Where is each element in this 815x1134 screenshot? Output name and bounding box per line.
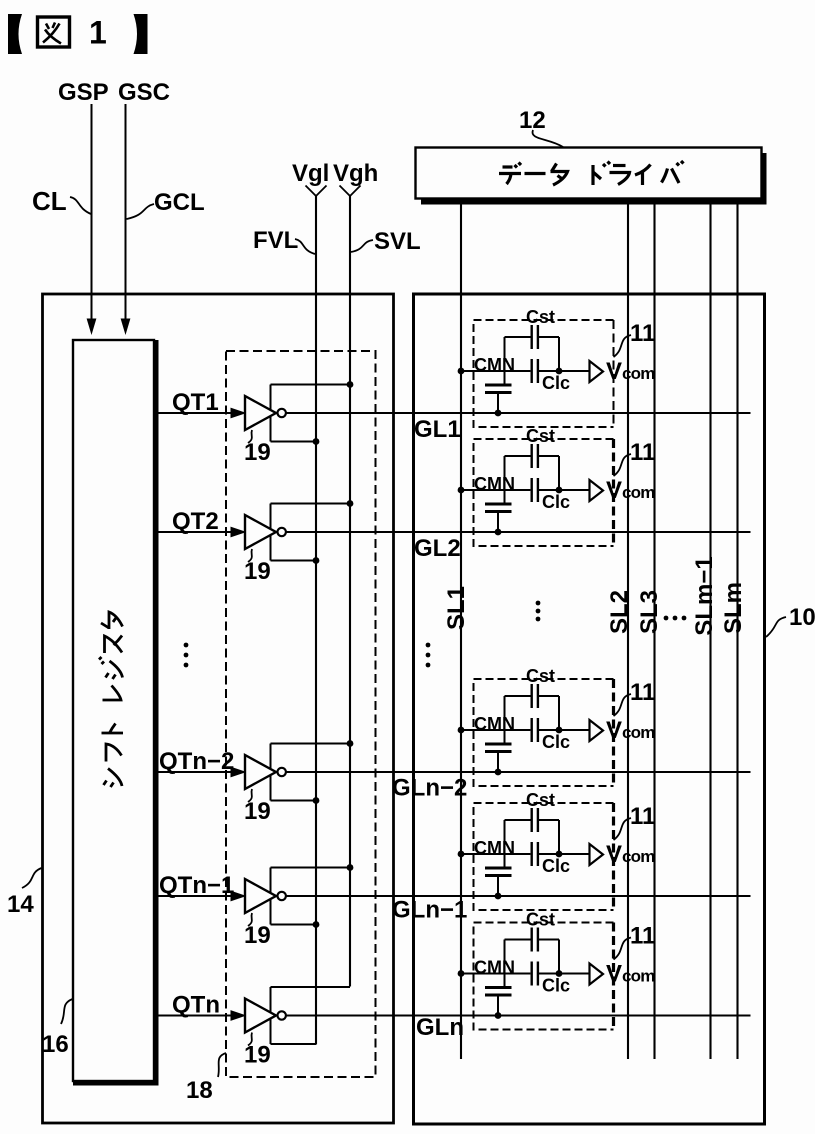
- cell dashed outline: [474, 923, 614, 1030]
- svg-text:1: 1: [89, 15, 107, 51]
- junction dot on GL2: [495, 529, 502, 536]
- wire node to Cst/CMN (left riser): [504, 940, 506, 988]
- shift register box 16: [73, 340, 159, 1086]
- capacitor Clc plates: [532, 478, 538, 502]
- capacitor Clc plates: [532, 718, 538, 742]
- leader from 18 to dashed box 18: [218, 1053, 226, 1077]
- inverter output bubble: [278, 768, 286, 776]
- svg-text:SL2: SL2: [606, 590, 633, 634]
- junction dot on Vgl: [313, 438, 320, 445]
- inverter power rail stubs: [271, 744, 351, 801]
- svg-text:Vcom: Vcom: [606, 717, 655, 744]
- svg-text:CMN: CMN: [474, 958, 515, 978]
- leader from FVL to Vgl rail: [295, 239, 315, 254]
- junction dot on Vgl: [313, 921, 320, 928]
- inverter 19 input arrowhead: [231, 527, 247, 538]
- wire Vgl vertical rail: [315, 196, 317, 1045]
- svg-text:GLn−2: GLn−2: [392, 775, 467, 802]
- leader from 19 to inverter: [248, 1033, 252, 1046]
- junction dot on SL1: [458, 368, 465, 375]
- capacitor Cst plates: [532, 808, 538, 832]
- MOS capacitor CMN plates: [485, 868, 512, 876]
- svg-text:Clc: Clc: [542, 373, 570, 393]
- left outer box 14 (gate driver): [43, 294, 394, 1123]
- junction dot on GLn−1: [495, 893, 502, 900]
- junction dot at Vcom node: [556, 851, 563, 858]
- svg-text:11: 11: [630, 439, 655, 466]
- svg-text:GLn: GLn: [416, 1014, 464, 1041]
- wire Cst to Vcom node (right riser): [558, 940, 560, 974]
- svg-text:Vcom: Vcom: [606, 477, 655, 504]
- pixel circuit 11 (row GL2): [458, 426, 656, 546]
- inverter power rail stubs: [271, 868, 351, 925]
- data driver box 12: [416, 148, 762, 199]
- inverter output bubble: [278, 409, 286, 417]
- leader from GCL to GSC wire: [127, 204, 155, 219]
- svg-text:CMN: CMN: [474, 355, 515, 375]
- svg-text:19: 19: [244, 922, 271, 949]
- wire pixel node: [461, 370, 590, 372]
- wire source line SLm: [736, 205, 738, 1060]
- wire QTn−2 from shift register: [159, 771, 233, 773]
- capacitor Clc plates: [532, 842, 538, 866]
- wire CMN gate to GLn: [497, 995, 499, 1016]
- junction dot on SL1: [458, 851, 465, 858]
- wire pixel node: [461, 853, 590, 855]
- wire QT2 from shift register: [159, 531, 233, 533]
- junction dot on SL1: [458, 727, 465, 734]
- svg-text:Cst: Cst: [526, 307, 555, 327]
- wire Cst to Vcom node (right riser): [558, 696, 560, 730]
- leader from 19 to inverter: [248, 549, 252, 562]
- leader from 11 to cell: [614, 818, 632, 840]
- inverter 19 input arrowhead: [231, 408, 247, 419]
- svg-text:19: 19: [244, 798, 271, 825]
- wire pixel node: [461, 489, 590, 491]
- capacitor Cst plates: [532, 444, 538, 468]
- leader from 11 to cell: [614, 694, 632, 716]
- svg-text:10: 10: [789, 604, 815, 631]
- Vcom terminal triangle: [590, 844, 604, 865]
- inverter power rail stubs: [271, 504, 351, 561]
- pixel circuit 11 (row GLn−2): [458, 666, 656, 786]
- cell dashed outline: [474, 803, 614, 910]
- inverter power rail stubs: [271, 987, 351, 1044]
- MOS capacitor CMN plates: [485, 385, 512, 393]
- wire gate line GLn−1: [286, 895, 751, 897]
- svg-text:GL2: GL2: [414, 535, 461, 562]
- inverter U3 triangle: [245, 755, 276, 789]
- junction dot on GLn−2: [495, 769, 502, 776]
- leader from 14 to left box: [22, 868, 42, 888]
- svg-text:Cst: Cst: [526, 666, 555, 686]
- capacitor Cst leads: [505, 336, 560, 338]
- svg-text:Vcom: Vcom: [606, 961, 655, 988]
- svg-text:11: 11: [630, 803, 655, 830]
- ellipsis between QT2 and QTn-2: [184, 643, 189, 668]
- inverter U2 triangle: [245, 515, 276, 549]
- svg-text:Cst: Cst: [526, 790, 555, 810]
- leader from 19 to inverter: [248, 430, 252, 443]
- Vcom terminal triangle: [590, 964, 604, 985]
- Vgl terminal fork: [306, 186, 327, 197]
- ellipsis between SL3 and SLm-1: [664, 616, 687, 621]
- level shifter dashed box 18: [226, 351, 376, 1077]
- junction dot on GL1: [495, 410, 502, 417]
- svg-text:GLn−1: GLn−1: [392, 897, 467, 924]
- wire CMN gate to GL2: [497, 512, 499, 533]
- svg-text:Vgl: Vgl: [292, 160, 329, 187]
- leader from CL to GSP wire: [70, 197, 91, 214]
- pixel circuit 11 (row GLn): [458, 910, 656, 1030]
- junction dot at Vcom node: [556, 487, 563, 494]
- svg-text:14: 14: [7, 891, 34, 918]
- junction dot on Vgl: [313, 797, 320, 804]
- pixel circuit 11 (row GLn−1): [458, 790, 656, 910]
- inverter output bubble: [278, 892, 286, 900]
- svg-text:19: 19: [244, 439, 271, 466]
- svg-text:FVL: FVL: [253, 227, 298, 254]
- wire QTn−1 from shift register: [159, 895, 233, 897]
- wire source line SL3: [653, 205, 655, 1060]
- svg-text:SLm: SLm: [720, 582, 747, 634]
- inverter 19 input arrowhead: [231, 1010, 247, 1021]
- svg-text:Clc: Clc: [542, 732, 570, 752]
- svg-text:19: 19: [244, 1042, 271, 1069]
- wire gate line GL2: [286, 531, 751, 533]
- cell dashed outline: [474, 439, 614, 546]
- svg-text:18: 18: [186, 1077, 213, 1104]
- inverter U4 triangle: [245, 879, 276, 913]
- wire CMN gate to GLn−1: [497, 876, 499, 897]
- wire CMN gate to GL1: [497, 393, 499, 414]
- junction dot on GLn: [495, 1012, 502, 1019]
- leader from SVL to Vgh rail: [351, 240, 373, 252]
- Vcom terminal triangle: [590, 480, 604, 501]
- leader from 10 to box 10: [766, 617, 786, 637]
- svg-text:11: 11: [630, 923, 655, 950]
- junction dot at Vcom node: [556, 970, 563, 977]
- svg-text:Vgh: Vgh: [333, 160, 378, 187]
- svg-text:Cst: Cst: [526, 426, 555, 446]
- pixel circuit 11 (row GL1): [458, 307, 656, 427]
- Vcom terminal triangle: [590, 720, 604, 741]
- wire gate line GLn: [286, 1014, 751, 1016]
- junction dot on Vgh: [347, 740, 354, 747]
- svg-text:11: 11: [630, 679, 655, 706]
- svg-text:Clc: Clc: [542, 856, 570, 876]
- leader from 11 to cell: [614, 335, 632, 357]
- inverter power rail stubs: [271, 385, 351, 442]
- wire source line SL2: [627, 205, 629, 1060]
- svg-text:QT2: QT2: [172, 508, 219, 535]
- ellipsis between SL1 and SL2: [536, 601, 541, 622]
- wire pixel node: [461, 973, 590, 975]
- junction dot on SL1: [458, 970, 465, 977]
- leader from 11 to cell: [614, 938, 632, 960]
- ellipsis left of SL1: [426, 643, 431, 668]
- capacitor Cst plates: [532, 928, 538, 952]
- svg-text:GCL: GCL: [154, 189, 205, 216]
- junction dot on Vgh: [347, 500, 354, 507]
- svg-text:11: 11: [630, 320, 655, 347]
- capacitor Cst plates: [532, 325, 538, 349]
- wire CMN gate to GLn−2: [497, 752, 499, 773]
- svg-text:Clc: Clc: [542, 976, 570, 996]
- svg-text:Vcom: Vcom: [606, 841, 655, 868]
- capacitor Cst leads: [505, 819, 560, 821]
- wire gate line GL1: [286, 412, 751, 414]
- inverter 19 input arrowhead: [231, 891, 247, 902]
- junction dot on Vgh: [347, 864, 354, 871]
- capacitor Cst plates: [532, 684, 538, 708]
- wire QTn from shift register: [159, 1014, 233, 1016]
- inverter U1 triangle: [245, 396, 276, 430]
- junction dot at Vcom node: [556, 727, 563, 734]
- svg-text:Vcom: Vcom: [606, 358, 655, 385]
- svg-text:CMN: CMN: [474, 714, 515, 734]
- junction dot on Vgh: [347, 381, 354, 388]
- svg-text:QTn: QTn: [172, 992, 220, 1019]
- junction dot on Vgl: [313, 557, 320, 564]
- inverter output bubble: [278, 528, 286, 536]
- wire pixel node: [461, 729, 590, 731]
- wire node to Cst/CMN (left riser): [504, 337, 506, 385]
- svg-text:CMN: CMN: [474, 838, 515, 858]
- capacitor Cst leads: [505, 939, 560, 941]
- wire node to Cst/CMN (left riser): [504, 696, 506, 744]
- capacitor Clc plates: [532, 359, 538, 383]
- wire node to Cst/CMN (left riser): [504, 456, 506, 504]
- Vcom terminal triangle: [590, 361, 604, 382]
- cell dashed outline: [474, 320, 614, 427]
- svg-text:QTn−1: QTn−1: [159, 872, 234, 899]
- inverter output bubble: [278, 1011, 286, 1019]
- Vgh terminal fork: [340, 186, 361, 197]
- figure title 【図 1】: [8, 14, 148, 54]
- inverter 19 input arrowhead: [231, 767, 247, 778]
- capacitor Clc plates: [532, 962, 538, 986]
- svg-text:SL1: SL1: [443, 586, 470, 630]
- shift register label シフト レジスタ (rotated): [99, 612, 123, 787]
- svg-text:Clc: Clc: [542, 492, 570, 512]
- svg-text:16: 16: [42, 1031, 69, 1058]
- svg-text:GSP: GSP: [58, 79, 109, 106]
- pixel array box 10: [414, 294, 765, 1124]
- MOS capacitor CMN plates: [485, 988, 512, 996]
- svg-text:SVL: SVL: [374, 228, 421, 255]
- cell dashed outline: [474, 679, 614, 786]
- svg-text:QTn−2: QTn−2: [159, 748, 234, 775]
- leader from 19 to inverter: [248, 789, 252, 802]
- wire source line SL1: [460, 205, 462, 1060]
- data driver label データ ドライバ: [499, 161, 684, 185]
- data driver box shadow: [421, 153, 767, 205]
- svg-text:CMN: CMN: [474, 474, 515, 494]
- junction dot on SL1: [458, 487, 465, 494]
- leader from 11 to cell: [614, 454, 632, 476]
- wire source line SLm−1: [709, 205, 711, 1060]
- leader from 16 to shift register box: [61, 999, 73, 1024]
- wire GSP input arrow: [87, 104, 97, 335]
- svg-text:SLm−1: SLm−1: [691, 556, 718, 635]
- wire GSC input arrow: [121, 104, 131, 335]
- MOS capacitor CMN plates: [485, 744, 512, 752]
- svg-text:QT1: QT1: [172, 389, 219, 416]
- svg-text:GSC: GSC: [118, 79, 170, 106]
- wire Cst to Vcom node (right riser): [558, 337, 560, 371]
- leader from 19 to inverter: [248, 913, 252, 926]
- junction dot at Vcom node: [556, 368, 563, 375]
- wire Vgh vertical rail: [349, 196, 351, 987]
- svg-text:Cst: Cst: [526, 910, 555, 930]
- capacitor Cst leads: [505, 695, 560, 697]
- wire gate line GLn−2: [286, 771, 751, 773]
- wire QT1 from shift register: [159, 412, 233, 414]
- wire Cst to Vcom node (right riser): [558, 820, 560, 854]
- svg-text:GL1: GL1: [414, 416, 461, 443]
- MOS capacitor CMN plates: [485, 504, 512, 512]
- svg-text:CL: CL: [32, 186, 67, 216]
- wire node to Cst/CMN (left riser): [504, 820, 506, 868]
- svg-text:19: 19: [244, 558, 271, 585]
- capacitor Cst leads: [505, 455, 560, 457]
- wire Cst to Vcom node (right riser): [558, 456, 560, 490]
- svg-text:SL3: SL3: [636, 590, 663, 634]
- inverter U5 triangle: [245, 999, 276, 1033]
- leader from 12 to data driver box: [532, 130, 563, 147]
